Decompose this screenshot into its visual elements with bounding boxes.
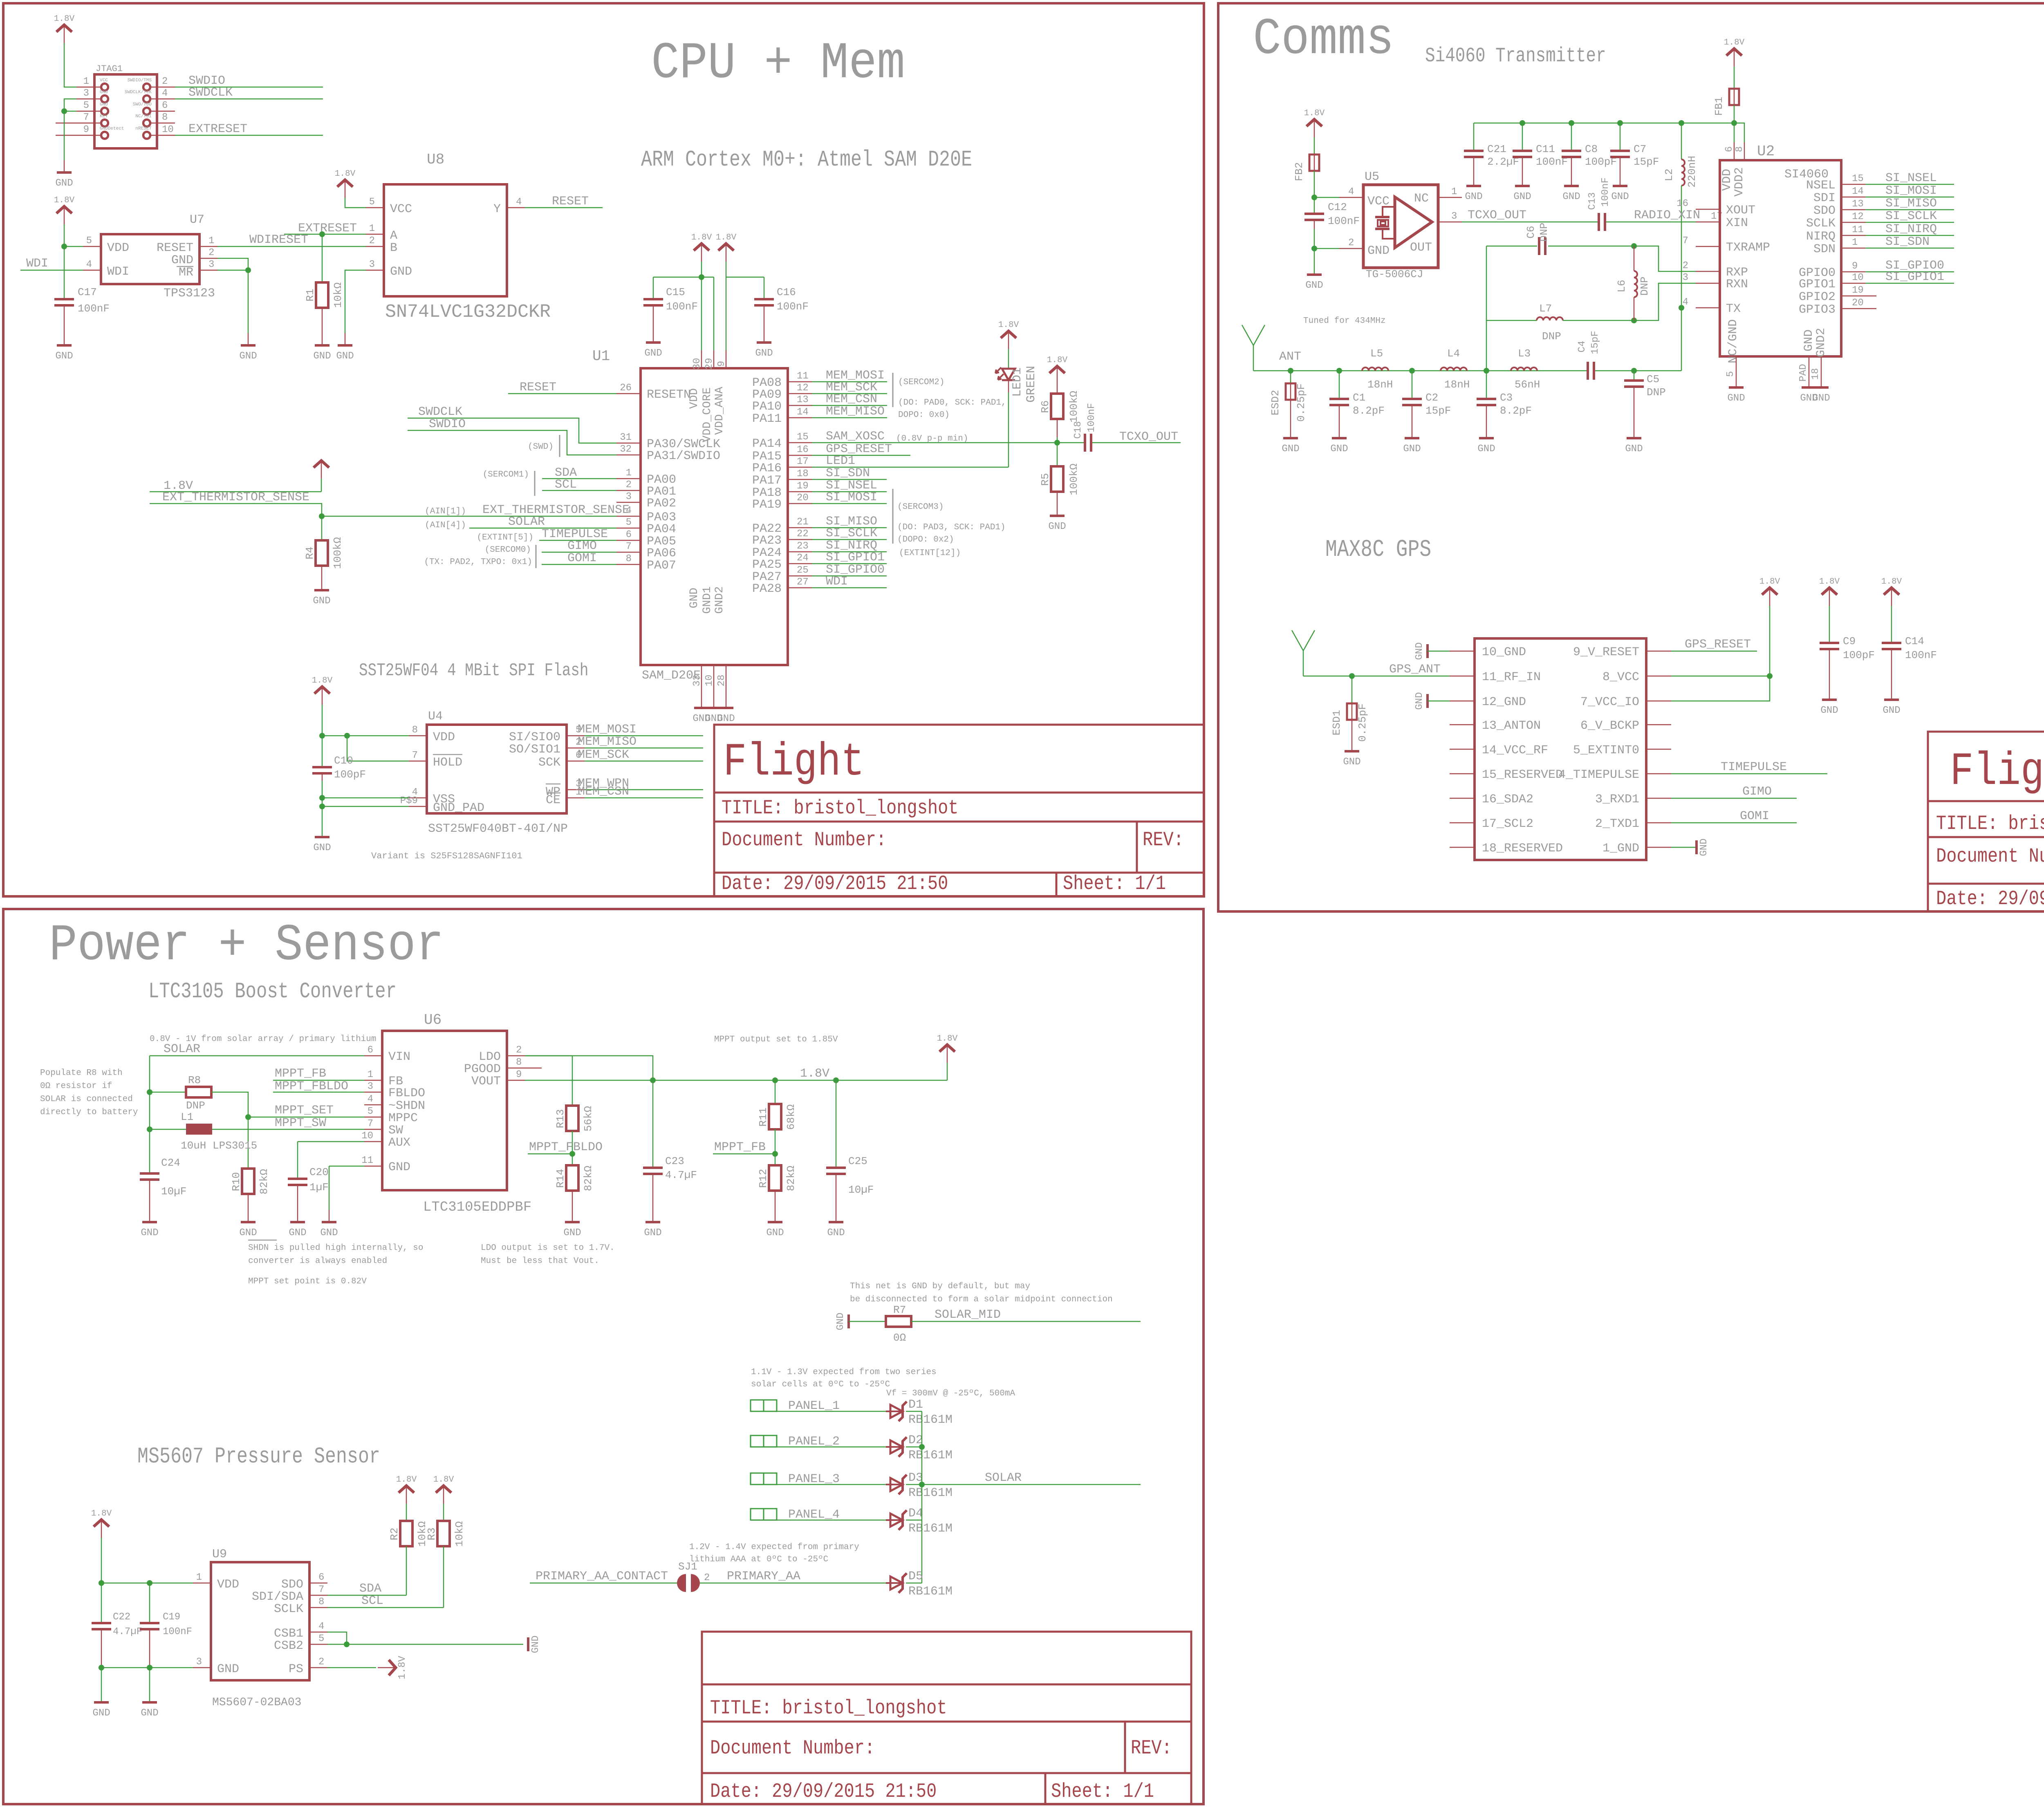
GPS pin 15_RESERVED — [1450, 773, 1475, 775]
svg-text:SWO/TDO: SWO/TDO — [133, 102, 152, 107]
junction — [61, 108, 67, 114]
net SOLAR out — [922, 1484, 1141, 1485]
GPS pin 13_ANTON — [1450, 724, 1475, 725]
svg-text:PANEL_4: PANEL_4 — [788, 1508, 840, 1522]
svg-text:SI_MOSI: SI_MOSI — [1885, 184, 1937, 198]
net SWDIO route to U1 — [408, 430, 616, 455]
wire R3 to SCL — [443, 1546, 444, 1608]
svg-text:MEM_CSN: MEM_CSN — [826, 392, 877, 406]
svg-text:GND: GND — [388, 1160, 410, 1174]
U6 pin 7 SW — [364, 1129, 382, 1130]
svg-text:GPS_ANT: GPS_ANT — [1389, 663, 1441, 676]
svg-text:SI_NSEL: SI_NSEL — [1885, 171, 1937, 185]
net GOMI gps — [1671, 822, 1797, 824]
svg-text:R5: R5 — [1039, 473, 1051, 486]
svg-text:GND: GND — [1330, 443, 1348, 455]
JTAG1 pin 4 — [150, 99, 175, 100]
svg-text:1.8V: 1.8V — [800, 1067, 829, 1081]
U2 pin 2 RXP — [1696, 271, 1720, 272]
svg-text:U4: U4 — [428, 710, 443, 723]
svg-text:PA16: PA16 — [752, 461, 782, 475]
net MEM_MISO U4 — [585, 748, 703, 749]
diode D5 — [886, 1573, 907, 1593]
svg-text:1: 1 — [369, 223, 375, 234]
svg-text:L6: L6 — [1616, 280, 1628, 292]
svg-text:GND: GND — [1513, 191, 1531, 202]
LED LED1 — [998, 320, 1019, 349]
net PRIMARY_AA_CONTACT — [530, 1583, 679, 1584]
capacitor C9 — [1819, 577, 1840, 606]
svg-text:GND: GND — [1367, 244, 1390, 258]
U1 pin 14 PA11 — [788, 417, 812, 419]
svg-text:15pF: 15pF — [1425, 405, 1451, 417]
U1 pin 22 PA23 — [788, 539, 812, 540]
svg-text:18nH: 18nH — [1444, 378, 1470, 391]
net LED1 — [812, 467, 1009, 468]
IC U5 TG-5006CJ — [1363, 185, 1438, 268]
svg-text:100nF: 100nF — [1905, 649, 1937, 661]
svg-text:C2: C2 — [1425, 392, 1438, 404]
resistor R2 — [406, 1504, 407, 1521]
svg-text:PAD: PAD — [1798, 364, 1809, 381]
svg-text:27: 27 — [797, 577, 809, 588]
svg-text:8.2pF: 8.2pF — [1500, 405, 1532, 417]
svg-text:82kΩ: 82kΩ — [582, 1166, 594, 1191]
svg-text:Flight: Flight — [1950, 746, 2044, 798]
U1 pin 25 PA27 — [788, 575, 812, 577]
sheet frame Comms — [1218, 3, 2044, 911]
JTAG1 pin 10 — [150, 135, 175, 136]
svg-text:C16: C16 — [777, 286, 796, 298]
svg-text:100nF: 100nF — [78, 302, 110, 315]
U6 pin 3 FBLDO — [364, 1092, 382, 1093]
svg-text:SI_MISO: SI_MISO — [1885, 197, 1937, 210]
svg-text:XOUT: XOUT — [1726, 204, 1755, 217]
net SI_SCLK — [1865, 222, 1954, 223]
net MPPT_SW — [150, 1129, 364, 1130]
svg-text:GND: GND — [1883, 705, 1900, 716]
net label GOMI — [542, 564, 616, 565]
capacitor C13 — [1598, 213, 1606, 231]
svg-text:9_V_RESET: 9_V_RESET — [1573, 645, 1639, 659]
svg-text:(EXTINT[12]): (EXTINT[12]) — [899, 549, 961, 558]
svg-text:PRIMARY_AA: PRIMARY_AA — [727, 1570, 800, 1583]
JTAG1 pin 1 — [76, 87, 101, 88]
net SI_SDN — [812, 479, 887, 480]
junction — [1311, 195, 1317, 200]
junction — [699, 274, 704, 280]
wire vdd to pin8 — [322, 735, 409, 737]
svg-text:1.8V: 1.8V — [998, 320, 1019, 330]
svg-text:WDI: WDI — [26, 257, 48, 271]
junction — [147, 1126, 152, 1132]
JTAG1 pin 7 — [76, 123, 101, 124]
svg-text:PA17: PA17 — [752, 474, 782, 488]
svg-text:5_EXTINT0: 5_EXTINT0 — [1573, 743, 1639, 757]
wire C12 bottom — [1314, 221, 1315, 229]
svg-text:6: 6 — [162, 100, 168, 111]
U1 pin 27 PA28 — [788, 587, 812, 589]
svg-text:GND1: GND1 — [701, 586, 714, 614]
net SI_SCLK — [812, 539, 887, 540]
capacitor C7 — [1620, 123, 1621, 150]
U1 pin 11 PA08 — [788, 381, 812, 383]
svg-text:5: 5 — [626, 517, 632, 528]
svg-text:GND: GND — [1727, 393, 1745, 404]
svg-text:11: 11 — [361, 1155, 373, 1166]
svg-text:1: 1 — [1451, 186, 1457, 197]
U2 pin 15 NSEL — [1841, 184, 1865, 185]
svg-text:7: 7 — [368, 1118, 373, 1129]
svg-text:1.8V: 1.8V — [1881, 577, 1902, 587]
title block sheet3 — [702, 1632, 1191, 1804]
net SI_GPIO0 — [812, 575, 887, 577]
svg-text:0.25pF: 0.25pF — [1295, 383, 1307, 422]
net label 1.8V wire — [150, 491, 321, 493]
svg-text:TITLE: bristol_longshot: TITLE: bristol_longshot — [710, 1697, 947, 1720]
svg-text:C13: C13 — [1587, 192, 1598, 210]
ESD diode ESD1 — [1351, 676, 1353, 703]
svg-text:SI_SCLK: SI_SCLK — [1885, 209, 1937, 223]
svg-text:PA11: PA11 — [752, 412, 782, 426]
power 1.8V U9 — [91, 1509, 112, 1538]
GPS pin 6_V_BCKP — [1646, 724, 1671, 725]
svg-text:20: 20 — [1852, 298, 1864, 309]
svg-text:1_GND: 1_GND — [1602, 842, 1639, 855]
svg-text:2: 2 — [162, 76, 168, 87]
inductor L2 — [1681, 123, 1682, 159]
U1 pin 21 PA22 — [788, 527, 812, 528]
resistor R13 — [572, 1056, 573, 1106]
svg-text:1.8V: 1.8V — [54, 14, 75, 24]
svg-text:U6: U6 — [424, 1012, 442, 1028]
U4 pin 1 — [567, 797, 585, 799]
svg-text:NC/TDI: NC/TDI — [135, 114, 152, 119]
svg-text:VCC: VCC — [100, 78, 108, 83]
junction — [1731, 120, 1737, 126]
U5 pin 2 — [1339, 248, 1363, 249]
U1 pin 13 PA10 — [788, 405, 812, 406]
svg-text:Variant is S25FS128SAGNFI101: Variant is S25FS128SAGNFI101 — [371, 851, 522, 861]
svg-text:GND: GND — [171, 253, 193, 267]
svg-text:12_GND: 12_GND — [1482, 695, 1526, 709]
U9 pin 7 — [309, 1595, 327, 1596]
svg-text:HOLD: HOLD — [433, 756, 462, 770]
U2 pin 13 SDO — [1841, 209, 1865, 210]
svg-text:CSB1: CSB1 — [274, 1627, 303, 1641]
junction — [772, 1151, 778, 1157]
svg-text:REV:: REV: — [1143, 828, 1184, 851]
junction — [245, 1114, 251, 1120]
svg-text:100kΩ: 100kΩ — [1068, 464, 1080, 495]
ground C7 — [1611, 186, 1629, 202]
svg-text:NSEL: NSEL — [1806, 179, 1836, 193]
junction — [919, 1444, 925, 1450]
svg-text:GPS_RESET: GPS_RESET — [1685, 638, 1751, 652]
IC U2 SI4060 — [1720, 160, 1841, 356]
GPS pin 12_GND — [1450, 701, 1475, 702]
svg-text:3: 3 — [1683, 272, 1688, 283]
svg-text:GND: GND — [1343, 757, 1360, 768]
svg-text:1: 1 — [83, 76, 89, 87]
U1 pin 24 PA25 — [788, 563, 812, 564]
svg-text:220nH: 220nH — [1686, 156, 1698, 188]
svg-text:SCL: SCL — [555, 478, 577, 492]
U8 pin 1 — [366, 234, 384, 235]
svg-text:(SWD): (SWD) — [528, 442, 554, 452]
svg-text:GND: GND — [688, 588, 701, 608]
junction — [1679, 305, 1684, 311]
svg-text:solar cells at 0ºC to -25ºC: solar cells at 0ºC to -25ºC — [751, 1380, 890, 1389]
capacitor C14 — [1881, 577, 1902, 606]
junction — [319, 513, 325, 519]
U1 pin 19 PA18 — [788, 491, 812, 493]
svg-text:VDD_CORE: VDD_CORE — [701, 387, 714, 442]
U6 pin 5 MPPC — [364, 1117, 382, 1118]
U2 pin 10 GPIO1 — [1841, 283, 1865, 284]
svg-text:C17: C17 — [78, 286, 97, 298]
wire pin7 vccio — [1671, 676, 1770, 701]
svg-text:SOLAR is connected: SOLAR is connected — [40, 1095, 133, 1104]
U7 pin 2 — [199, 258, 217, 259]
svg-text:1: 1 — [1852, 237, 1858, 248]
svg-text:100pF: 100pF — [1843, 649, 1875, 661]
svg-text:Date: 29/09/2015 21:50: Date: 29/09/2015 21:50 — [1936, 887, 2044, 910]
wire JTAG pin5 — [64, 111, 76, 112]
GPS pin 5_EXTINT0 — [1646, 749, 1671, 750]
ground flat pin10 — [1414, 642, 1428, 660]
U1 pin 12 PA09 — [788, 393, 812, 394]
power 1.8V JTAG — [54, 14, 75, 43]
sheet frame Power+Sensor — [3, 909, 1204, 1804]
svg-text:nRESET: nRESET — [135, 126, 152, 131]
svg-text:2: 2 — [318, 1657, 324, 1668]
diode D2 — [886, 1437, 907, 1457]
U2 pin 4 TX — [1696, 307, 1720, 309]
svg-text:VDD: VDD — [1720, 169, 1734, 191]
svg-text:EXT_THERMISTOR_SENSE: EXT_THERMISTOR_SENSE — [162, 490, 309, 504]
svg-text:1.8V: 1.8V — [1819, 577, 1840, 587]
inductor L5 — [1362, 367, 1388, 371]
resistor R10 — [242, 1169, 254, 1194]
U6 pin10 AUX wire — [298, 1141, 364, 1142]
junction — [245, 267, 251, 273]
svg-text:1.8V: 1.8V — [1304, 109, 1325, 118]
svg-text:SI_MOSI: SI_MOSI — [826, 490, 877, 504]
svg-text:2_TXD1: 2_TXD1 — [1595, 817, 1639, 831]
U6 pin 10 AUX — [364, 1141, 382, 1142]
junction — [147, 1665, 152, 1670]
ground C8 — [1562, 186, 1580, 202]
svg-text:R8: R8 — [188, 1074, 201, 1086]
svg-text:26: 26 — [620, 383, 632, 394]
ground C24 — [141, 1222, 158, 1238]
wire vdd rail caps — [1474, 123, 1744, 142]
svg-text:GPIO1: GPIO1 — [1799, 278, 1836, 291]
net SI_NSEL — [1865, 184, 1954, 185]
ground U6 — [320, 1222, 338, 1238]
svg-text:10kΩ: 10kΩ — [453, 1521, 466, 1547]
svg-text:GND: GND — [141, 1227, 158, 1238]
JTAG1 pin7 stub wire — [56, 123, 76, 124]
wire C4 to TX column — [1595, 370, 1681, 372]
net SI_NIRQ — [1865, 235, 1954, 236]
svg-text:PA10: PA10 — [752, 400, 782, 414]
svg-text:PA07: PA07 — [647, 559, 676, 573]
GPS pin 3_RXD1 — [1646, 798, 1671, 799]
svg-text:(AIN[4]): (AIN[4]) — [425, 521, 466, 530]
svg-text:RADIO_XIN: RADIO_XIN — [1634, 208, 1700, 222]
svg-text:12: 12 — [797, 383, 809, 394]
svg-text:GND: GND — [827, 1227, 845, 1238]
ground flat R7 — [835, 1312, 849, 1330]
U2 pin 12 SCLK — [1841, 222, 1865, 223]
net LDO wire — [525, 1056, 653, 1080]
svg-text:U2: U2 — [1757, 143, 1775, 160]
svg-text:SDA: SDA — [359, 1582, 381, 1596]
U1 ground pins bottom — [701, 665, 702, 683]
svg-text:CSB2: CSB2 — [274, 1639, 303, 1653]
U4 pin P$9 — [409, 806, 427, 807]
svg-text:SCLK: SCLK — [1806, 217, 1836, 231]
svg-text:(SERCOM2): (SERCOM2) — [898, 378, 944, 387]
power 1.8V R2 — [396, 1475, 417, 1504]
svg-text:1: 1 — [368, 1069, 373, 1080]
inductor L1 — [186, 1124, 212, 1135]
resistor R7 — [886, 1316, 911, 1327]
svg-text:U5: U5 — [1365, 170, 1379, 184]
ground C16 — [755, 343, 773, 359]
junction — [1679, 120, 1684, 126]
svg-text:6_V_BCKP: 6_V_BCKP — [1580, 719, 1639, 733]
GPS pin 9_V_RESET — [1646, 651, 1671, 652]
svg-text:1: 1 — [196, 1572, 202, 1583]
svg-text:RESETN: RESETN — [647, 388, 691, 402]
svg-text:LED1: LED1 — [826, 454, 855, 468]
U6 pin 11 GND — [364, 1166, 382, 1167]
JTAG1 pin9 stub wire — [56, 135, 76, 136]
svg-text:VCC: VCC — [390, 202, 412, 216]
U1 pin 4 PA03 — [616, 516, 641, 517]
antenna ANT — [1242, 325, 1265, 371]
ground R14 — [563, 1222, 581, 1238]
ground ESD2 — [1282, 438, 1299, 455]
svg-text:1.8V: 1.8V — [937, 1034, 958, 1043]
antenna GPS — [1292, 630, 1315, 676]
capacitor C6 loop — [1548, 246, 1634, 247]
svg-text:TX: TX — [1726, 302, 1741, 316]
net MEM_WPN U4 — [585, 789, 703, 790]
svg-text:15: 15 — [1852, 173, 1864, 184]
junction — [344, 733, 350, 739]
ground C23 — [644, 1222, 661, 1238]
wire vdd row — [101, 1583, 193, 1584]
net PANEL_3 — [777, 1484, 890, 1485]
svg-text:4: 4 — [368, 1094, 373, 1105]
svg-text:directly to battery: directly to battery — [40, 1108, 138, 1117]
svg-text:14_VCC_RF: 14_VCC_RF — [1482, 743, 1548, 757]
svg-text:SHDN is pulled high internally: SHDN is pulled high internally, so — [248, 1243, 423, 1253]
U2 pin 19 stub — [1865, 296, 1876, 297]
svg-text:15_RESERVED: 15_RESERVED — [1482, 768, 1563, 782]
svg-text:4.7µF: 4.7µF — [665, 1169, 697, 1181]
svg-text:be disconnected to form a sola: be disconnected to form a solar midpoint… — [850, 1295, 1113, 1304]
svg-text:LTC3105 Boost Converter: LTC3105 Boost Converter — [148, 979, 397, 1004]
wire U7 pin3 MR — [217, 270, 248, 271]
svg-text:L2: L2 — [1663, 168, 1675, 181]
junction — [147, 1580, 152, 1586]
U1 pin 31 PA30/SWCLK — [616, 443, 641, 444]
U4 pin 3 — [567, 789, 585, 790]
U7 pin 5 — [83, 246, 101, 247]
svg-text:GND: GND — [336, 351, 354, 362]
resistor R3 — [443, 1504, 444, 1521]
U2 pin 9 GPIO0 — [1841, 271, 1865, 273]
ground R4 — [313, 590, 330, 607]
svg-text:L3: L3 — [1518, 347, 1531, 360]
capacitor C4 — [1587, 362, 1595, 380]
junction — [1617, 120, 1623, 126]
svg-text:4: 4 — [162, 88, 168, 99]
svg-text:5: 5 — [318, 1633, 324, 1644]
svg-text:PANEL_3: PANEL_3 — [788, 1472, 840, 1486]
svg-text:AUX: AUX — [388, 1136, 410, 1150]
svg-text:3_RXD1: 3_RXD1 — [1595, 793, 1639, 806]
U5 pin 4 — [1339, 197, 1363, 198]
svg-text:C11: C11 — [1536, 143, 1555, 155]
svg-text:TPS3123: TPS3123 — [164, 287, 215, 300]
GPS pin 7_VCC_IO — [1646, 701, 1671, 702]
svg-text:PS: PS — [289, 1662, 303, 1676]
wire L2 to TX — [1681, 186, 1682, 371]
svg-text:RESET: RESET — [552, 195, 589, 208]
svg-text:SDO: SDO — [1813, 204, 1836, 218]
svg-text:23: 23 — [797, 541, 809, 552]
power 1.8V C15 — [691, 233, 712, 262]
svg-text:(0.8V p-p min): (0.8V p-p min) — [896, 434, 968, 443]
svg-text:100pF: 100pF — [334, 768, 366, 781]
net label TIMEPULSE — [539, 540, 616, 541]
svg-text:NC: NC — [1414, 192, 1429, 206]
svg-text:R2: R2 — [388, 1527, 401, 1540]
svg-text:TCXO_OUT: TCXO_OUT — [1468, 208, 1526, 222]
junction — [1520, 120, 1525, 126]
power 1.8V C16 — [716, 233, 737, 262]
svg-text:GND: GND — [1282, 443, 1299, 455]
U2 pin 14 SDI — [1841, 197, 1865, 198]
svg-text:9: 9 — [83, 124, 89, 135]
capacitor C17 — [54, 298, 74, 307]
wire pin8 — [1671, 676, 1770, 677]
net SDA — [327, 1595, 406, 1596]
svg-text:RESET: RESET — [520, 381, 556, 394]
ground flat pin1 — [1671, 847, 1697, 848]
power 1.8V U4 — [312, 676, 333, 705]
GPS pin 11_RF_IN — [1450, 676, 1475, 677]
net PRIMARY_AA — [700, 1583, 890, 1584]
svg-text:EXTRESET: EXTRESET — [188, 122, 247, 136]
svg-text:U8: U8 — [427, 151, 444, 168]
svg-text:C22: C22 — [113, 1612, 130, 1623]
svg-text:FB1: FB1 — [1713, 97, 1725, 116]
svg-text:3: 3 — [626, 491, 632, 502]
svg-text:GND: GND — [141, 1708, 158, 1719]
svg-text:SI_NIRQ: SI_NIRQ — [1885, 222, 1937, 236]
svg-text:10kΩ: 10kΩ — [332, 282, 344, 308]
GPS pin 18_RESERVED — [1450, 847, 1475, 848]
ground ESD1 — [1343, 751, 1360, 768]
svg-text:C14: C14 — [1905, 635, 1924, 647]
